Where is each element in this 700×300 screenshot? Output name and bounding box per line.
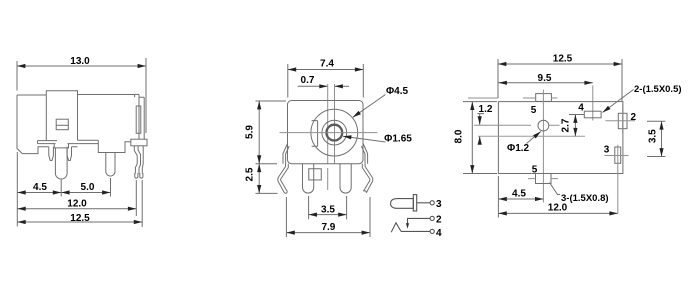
dim 5.9 ext top [256, 100, 287, 102]
contact window box [56, 119, 68, 130]
pad5 top [536, 94, 552, 102]
front bent leg line1 [134, 146, 137, 174]
dim 7.4 ext right [362, 64, 364, 98]
pad5 bottom centerline ticks [528, 178, 558, 180]
ring 3 thick [326, 125, 342, 141]
svg-text:2.5: 2.5 [245, 167, 256, 181]
svg-text:4.5: 4.5 [512, 189, 526, 200]
dim 3.5 right ext top [647, 120, 665, 122]
contact window mid line [56, 124, 68, 126]
pin centerline A [327, 84, 329, 190]
front bent leg line3 [141, 146, 144, 174]
switch arrow [406, 223, 409, 228]
svg-text:4: 4 [578, 103, 584, 114]
pin D long round-tip [106, 153, 115, 177]
dim 8.0 ext top [463, 101, 497, 103]
pad2 vertical centerline [622, 105, 624, 134]
svg-text:2: 2 [436, 215, 442, 226]
barrel circle [311, 109, 358, 156]
svg-text:3.5: 3.5 [648, 129, 659, 143]
barrel centerline B [334, 84, 336, 164]
svg-text:9.5: 9.5 [538, 73, 552, 84]
svg-text:Φ1.2: Φ1.2 [507, 143, 530, 154]
svg-text:0.7: 0.7 [301, 75, 315, 86]
right side tab [361, 144, 367, 164]
ext line front 12.5 [141, 180, 143, 227]
dim 4.5 line [17, 192, 61, 194]
pin B long round-tip [55, 148, 67, 179]
dim 0.7 left tail [298, 85, 328, 87]
ext 3.5 left [308, 196, 310, 219]
pad2 horizontal centerline [606, 120, 636, 122]
plug flange [413, 195, 416, 211]
body horizontal centerline [478, 135, 585, 137]
svg-text:12.5: 12.5 [70, 213, 90, 224]
dim 2.7 line [574, 115, 576, 137]
svg-text:12.0: 12.0 [67, 199, 87, 210]
dim 8.0 ext bottom [463, 173, 497, 175]
dim 12.5 ext right [621, 59, 623, 102]
pin B collar [54, 144, 68, 148]
pin3 circle [430, 201, 434, 205]
dim 1.2 lower arrow [479, 136, 481, 142]
dim 7.4 line [288, 69, 364, 71]
pad4 [584, 111, 601, 118]
pin2 circle [430, 216, 434, 220]
hole horizontal centerline [474, 124, 560, 126]
front bent leg line2 [138, 146, 140, 174]
front flange outer [139, 94, 144, 139]
bottom steps left of center [38, 141, 58, 144]
svg-text:7.9: 7.9 [321, 222, 335, 233]
svg-text:5.0: 5.0 [81, 182, 95, 193]
dim 9.5 line [499, 82, 593, 84]
mid pin left [303, 164, 314, 193]
pin2 wire [408, 218, 431, 223]
pad3 [615, 147, 621, 163]
ext body left bottom [497, 176, 499, 218]
dim 13.0 line [17, 65, 146, 67]
hole vertical centerline [542, 90, 544, 203]
svg-text:7.4: 7.4 [320, 59, 334, 70]
leader 3-(1.5X0.8) [550, 183, 561, 195]
dim 13.0 extension line right [145, 58, 147, 133]
dim 7.4 ext left [287, 64, 289, 98]
ext line body-left bottom [16, 152, 18, 227]
leader phi1.65 [343, 136, 385, 142]
dim 12.0 right line [498, 212, 617, 214]
front body [288, 101, 364, 164]
svg-text:3: 3 [436, 199, 442, 210]
dim 12.5 line [17, 221, 142, 223]
dim 8.0 line [471, 102, 473, 174]
dim 3.5 right ext bottom [647, 156, 665, 158]
dim 2.5 ext bottom [256, 192, 278, 194]
ext line pin B center [60, 180, 62, 197]
dim 3.5 right line [661, 121, 663, 156]
dim 12.5 ext left [497, 59, 499, 98]
ext 7.9 left [285, 197, 287, 237]
svg-text:Φ4.5: Φ4.5 [386, 86, 409, 97]
mid pin right [340, 164, 351, 193]
right wing leg [362, 164, 372, 193]
svg-text:3.5: 3.5 [321, 205, 335, 216]
body top-right section [78, 94, 135, 96]
front leg foot right [140, 173, 143, 178]
svg-text:4.5: 4.5 [33, 182, 47, 193]
svg-text:12.0: 12.0 [548, 203, 568, 214]
svg-text:5: 5 [531, 105, 537, 116]
pin4 wire [401, 230, 430, 232]
svg-text:4: 4 [436, 228, 442, 239]
switch contact hump [391, 223, 401, 232]
dim 0.7 right tail [335, 85, 350, 87]
dim 4.5 right line [498, 198, 543, 200]
front leg foot left [135, 173, 138, 178]
ext line front leg 12.0 [135, 180, 137, 216]
pad3 vertical centerline [617, 145, 619, 214]
svg-text:5: 5 [532, 165, 538, 176]
pad5 top centerline [468, 97, 557, 99]
pad2 [618, 113, 627, 128]
ext 3.5 right [346, 196, 348, 219]
svg-text:Φ1.65: Φ1.65 [384, 134, 412, 145]
leader 2-(1.5X0.5) [603, 90, 634, 113]
barrel chord flat [312, 121, 318, 147]
svg-text:8.0: 8.0 [454, 129, 465, 143]
left wing leg [278, 164, 288, 194]
plug stem [417, 202, 431, 204]
leader phi4.5 [353, 95, 386, 118]
center tower [46, 91, 77, 141]
horizontal centerline [280, 132, 378, 134]
dim 7.9 line [286, 232, 370, 234]
dim 12.0 line [17, 208, 136, 210]
svg-text:3-(1.5X0.8): 3-(1.5X0.8) [561, 193, 609, 204]
svg-text:5.9: 5.9 [245, 125, 256, 139]
pad4 vertical centerline [592, 86, 594, 121]
body top-left section [17, 95, 49, 154]
leg A tapered [49, 147, 54, 161]
plug bullet [391, 199, 414, 209]
dim 1.2 upper arrow [477, 114, 484, 125]
svg-text:2.7: 2.7 [561, 118, 572, 132]
leader phi1.2 [527, 132, 541, 144]
body rect [498, 102, 623, 174]
dim 2.5 line [258, 164, 260, 194]
svg-text:2: 2 [631, 112, 637, 123]
ring 2 [322, 120, 347, 145]
bottom steps right of tower [68, 140, 131, 152]
front step notch [135, 94, 139, 97]
front flange inner strip [136, 106, 141, 133]
leg C tapered [67, 147, 71, 161]
dim 13.0 extension line left [16, 61, 18, 91]
pad5 bottom [536, 174, 552, 184]
pad4 horizontal tick [569, 114, 584, 116]
dim 3.5 line [309, 214, 347, 216]
svg-text:1.2: 1.2 [479, 104, 493, 115]
left side tab [283, 144, 289, 164]
svg-text:13.0: 13.0 [70, 56, 90, 67]
mid tab rect [309, 169, 322, 180]
svg-text:3: 3 [604, 145, 610, 156]
dim 12.5 line [498, 63, 622, 65]
svg-text:2-(1.5X0.5): 2-(1.5X0.5) [634, 84, 682, 95]
pad3 horizontal centerline [604, 155, 628, 157]
hole phi1.2 [538, 120, 549, 131]
dim 5.0 line [61, 192, 110, 194]
dim 5.9 ext bottom [256, 163, 278, 165]
ext 7.9 right [369, 197, 371, 237]
pin4 circle [430, 229, 434, 233]
front foot [131, 139, 147, 146]
dim 5.9 line [258, 101, 260, 164]
ext line pin D center [110, 178, 112, 197]
svg-text:12.5: 12.5 [553, 54, 573, 65]
